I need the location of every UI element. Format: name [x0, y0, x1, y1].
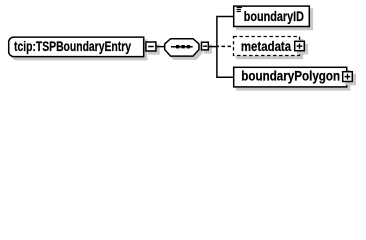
element box tcip:TSPBoundaryEntry: [9, 37, 147, 60]
collapse button (minus) on sequence: [202, 42, 212, 53]
collapse button (minus) on tcip:TSPBoundaryEntry: [146, 42, 159, 54]
simple-content icon in boundaryID: [237, 8, 242, 12]
dashed wire to metadata: [218, 45, 233, 47]
element box metadata (optional, dashed): [234, 37, 303, 59]
expand button (plus) on boundaryPolygon: [343, 72, 356, 85]
wire: sequence to trunk: [209, 46, 218, 48]
element box boundaryID: [234, 6, 313, 29]
svg-text:boundaryID: boundaryID: [244, 9, 304, 24]
trunk wire with branches to boundaryID and boundaryPolygon: [217, 17, 233, 78]
element box boundaryPolygon: [234, 67, 350, 90]
svg-text:boundaryPolygon: boundaryPolygon: [241, 69, 340, 84]
expand button (plus) on metadata: [295, 41, 308, 53]
wire: root to sequence: [157, 46, 165, 48]
sequence compositor: [165, 39, 202, 59]
svg-text:tcip:TSPBoundaryEntry: tcip:TSPBoundaryEntry: [14, 39, 131, 54]
svg-text:metadata: metadata: [241, 39, 292, 54]
